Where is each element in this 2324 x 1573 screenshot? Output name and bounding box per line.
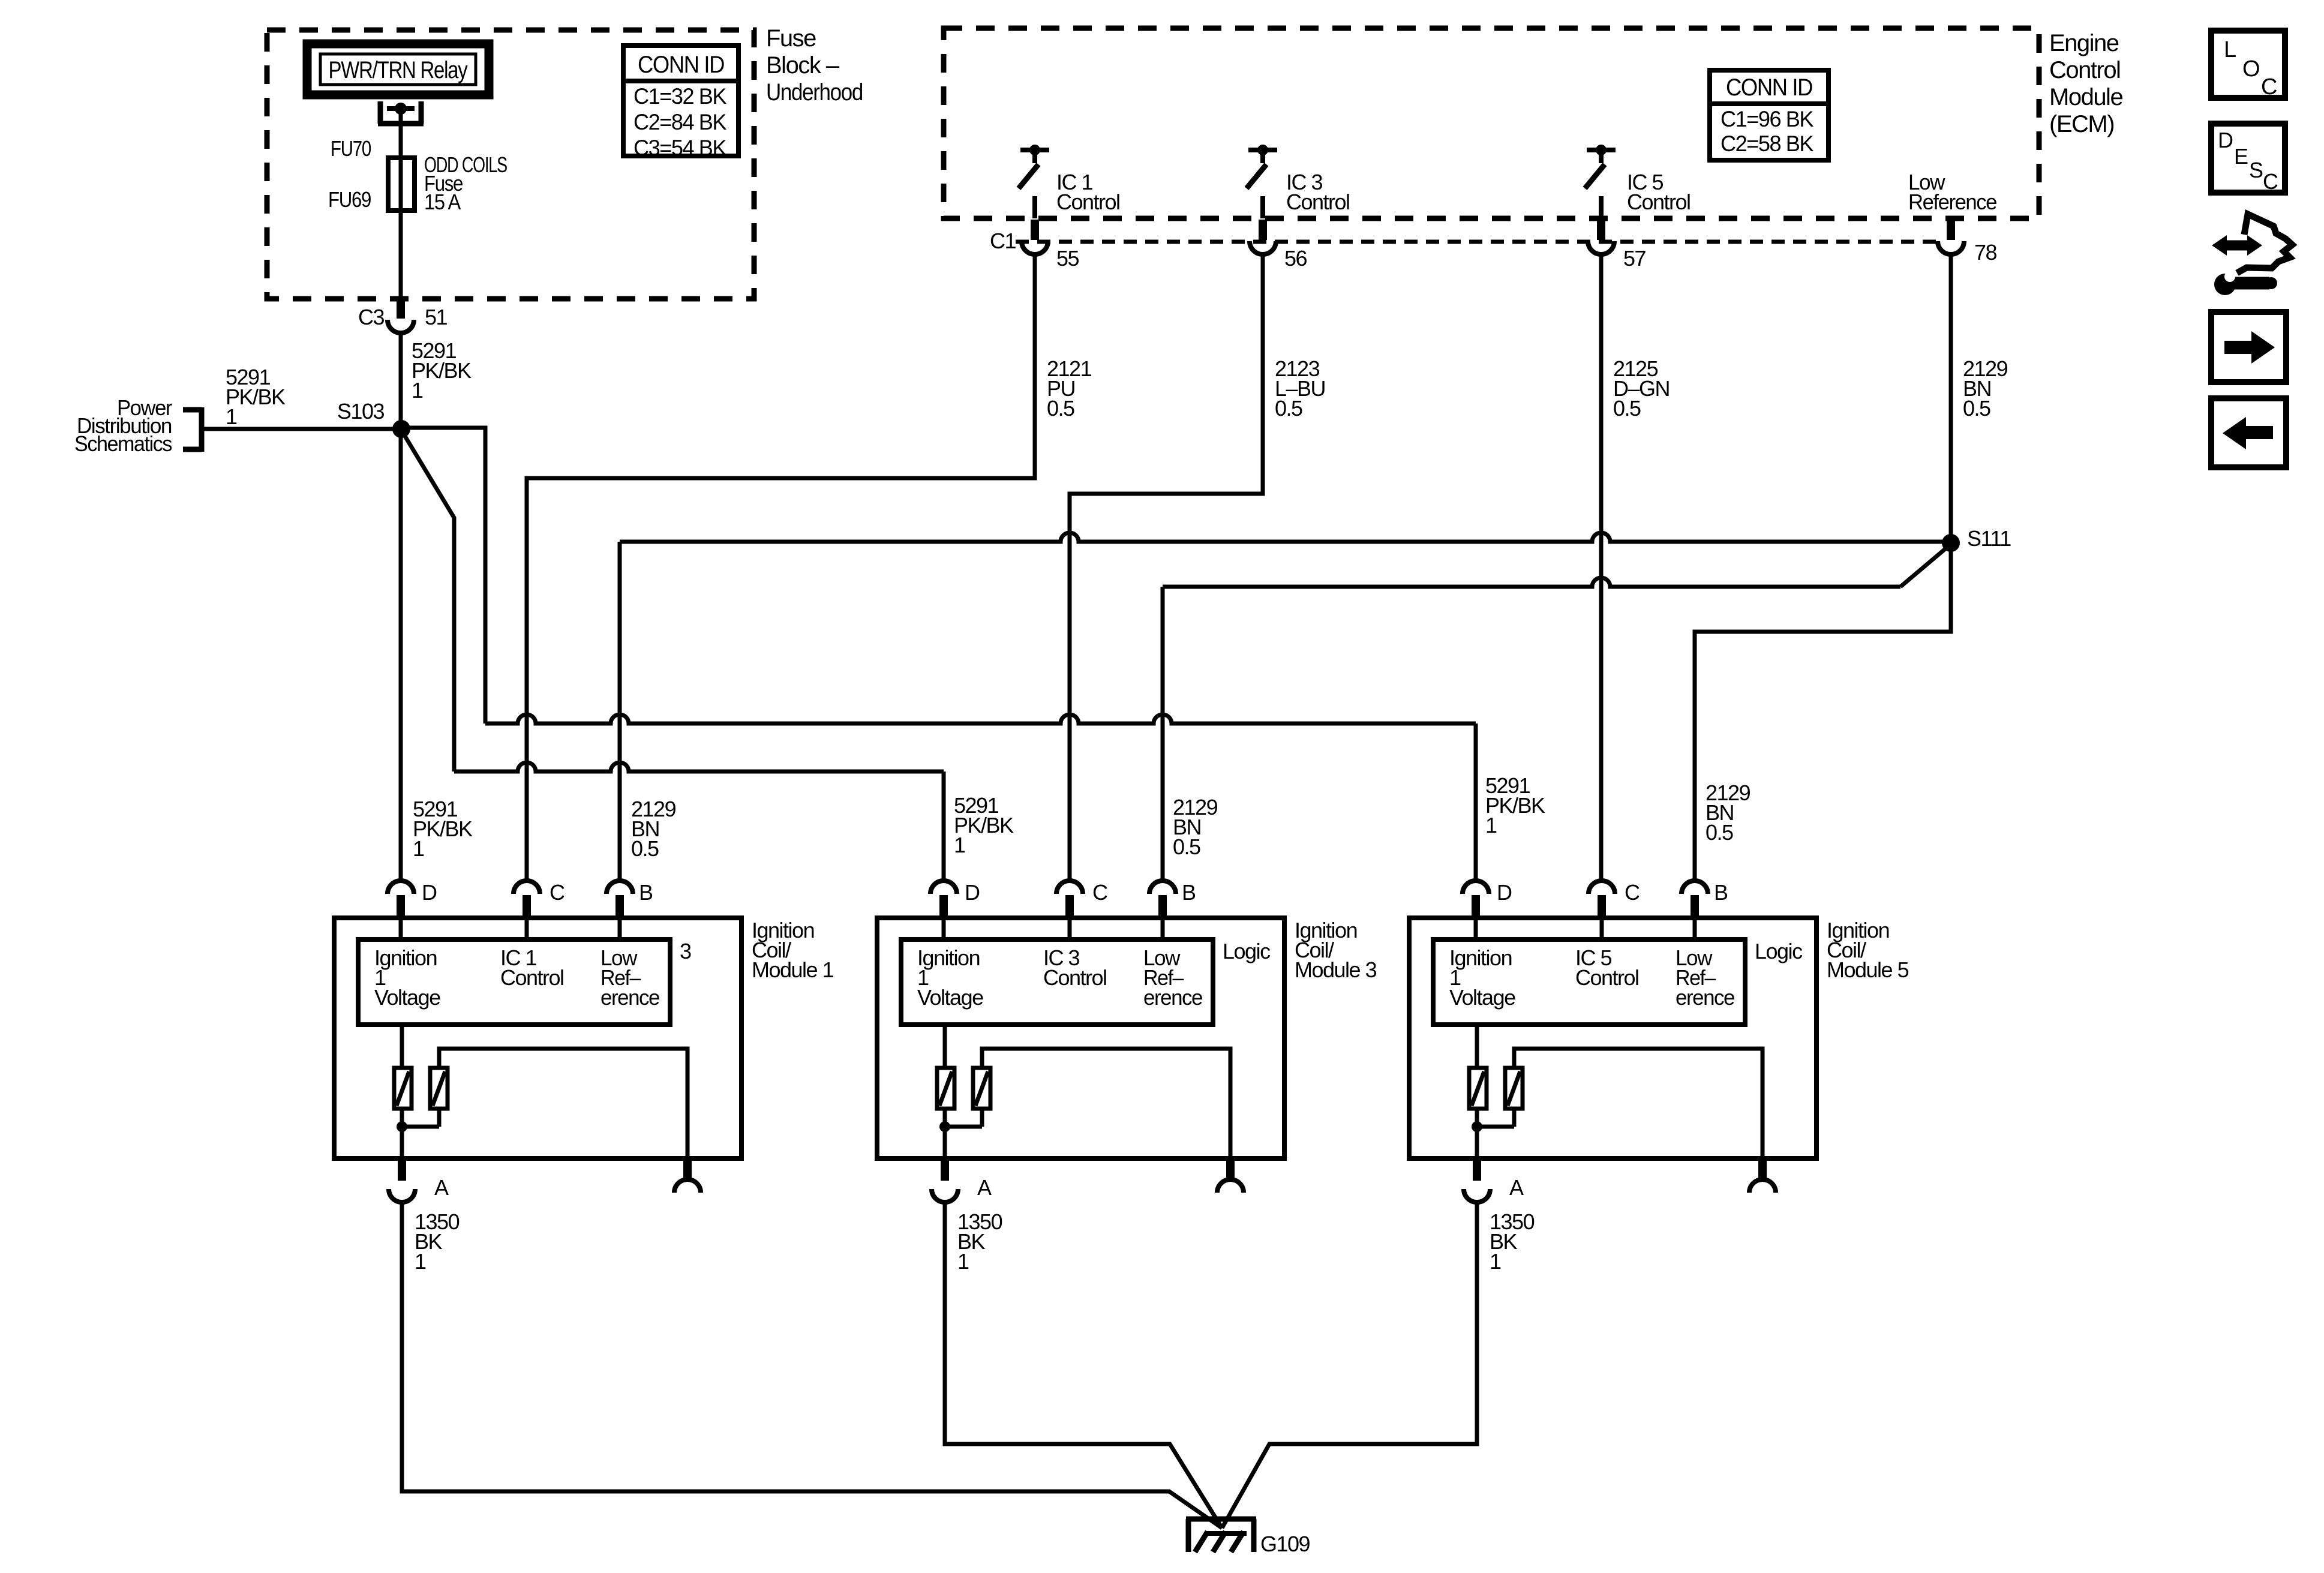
svg-text:Voltage: Voltage [917, 985, 983, 1010]
svg-text:Block –: Block – [766, 52, 840, 79]
icon forward arrow box [2211, 312, 2286, 382]
wire 2129: S111 to module1 pin B [620, 533, 1951, 542]
svg-text:Schematics: Schematics [74, 431, 172, 456]
wire 1350 BK: module5 A to ground [1222, 1202, 1477, 1528]
wire 2129: S111 down branch to module5 pin B [1695, 543, 1951, 881]
svg-text:C: C [2261, 74, 2277, 100]
svg-text:Engine: Engine [2049, 30, 2119, 56]
svg-text:1: 1 [1490, 1249, 1501, 1274]
ignition coil/module 1 pin B connector [606, 881, 633, 894]
svg-text:S103: S103 [337, 399, 385, 424]
svg-text:Voltage: Voltage [374, 985, 440, 1010]
svg-text:G109: G109 [1260, 1532, 1310, 1556]
ECM driver IC 3 Control [1248, 148, 1277, 152]
wire C3 to S103 splice [399, 332, 403, 430]
ECM Low Reference stub [1947, 217, 1955, 220]
module 1 pin wires into inner box [399, 918, 403, 939]
svg-text:0.5: 0.5 [1047, 396, 1074, 421]
svg-text:Control: Control [1043, 965, 1107, 990]
svg-text:1: 1 [954, 833, 965, 857]
ignition coil/module 3 inner terminal box [901, 939, 1213, 1025]
svg-text:C: C [2263, 169, 2278, 194]
svg-text:1: 1 [957, 1249, 969, 1274]
wire 2129: S111 diagonal branch to module3 pin B [1900, 544, 1951, 587]
svg-text:Control: Control [2049, 57, 2120, 83]
relay PWR/TRN Relay box [307, 44, 489, 95]
ignition coil/module 3 outer box [877, 918, 1284, 1158]
svg-text:1: 1 [413, 836, 424, 861]
svg-text:D: D [422, 880, 437, 905]
module 3 coil primary winding [937, 1068, 954, 1109]
svg-text:0.5: 0.5 [1173, 834, 1200, 859]
ignition coil/module 3 pin B connector [1149, 881, 1176, 894]
svg-text:erence: erence [1143, 985, 1202, 1010]
svg-text:C2=84 BK: C2=84 BK [633, 110, 727, 134]
svg-text:0.5: 0.5 [1963, 396, 1990, 421]
ECM pin 57 [1597, 220, 1605, 240]
svg-text:Underhood: Underhood [766, 79, 863, 106]
svg-text:1: 1 [1485, 813, 1497, 837]
svg-text:A: A [1509, 1175, 1524, 1200]
svg-text:O: O [2242, 56, 2259, 82]
wire 2129 BN: ECM 78 down to splice S111 [1949, 254, 1953, 543]
module 5 unused terminal [1758, 1158, 1767, 1179]
wire 5291: S103 down to module1 pin D [399, 429, 403, 881]
svg-text:CONN ID: CONN ID [1726, 74, 1812, 101]
wire power distribution to S103 [202, 427, 401, 431]
ignition coil/module 1 outer box [334, 918, 741, 1158]
svg-text:A: A [977, 1175, 992, 1200]
module 1 coil primary winding [394, 1068, 412, 1109]
module 3 internal wires [943, 1025, 947, 1068]
wire 2125 D-GN: ECM 57 to module5 pin C [1599, 254, 1604, 881]
ignition coil/module 5 pin D connector [1474, 881, 1478, 882]
wire 5291 branch: S103 to module5 pin D [401, 428, 485, 724]
svg-text:Control: Control [1575, 965, 1639, 990]
splice S111 [1942, 534, 1960, 552]
svg-text:CONN ID: CONN ID [638, 52, 724, 78]
ignition coil/module 3 pin D connector [942, 881, 946, 882]
ignition coil/module 5 inner terminal box [1433, 939, 1745, 1025]
svg-text:1: 1 [226, 404, 237, 429]
ECM driver IC 1 Control [1020, 148, 1049, 152]
svg-text:C: C [550, 880, 565, 905]
svg-text:B: B [1182, 880, 1196, 905]
relay pin bracket [378, 101, 383, 124]
module 1 internal wires [400, 1025, 404, 1068]
svg-text:Module 5: Module 5 [1827, 957, 1909, 982]
module 5 pin A connector [1473, 1158, 1481, 1181]
svg-text:C: C [1625, 880, 1640, 905]
svg-text:erence: erence [600, 985, 659, 1010]
module 5 coil secondary winding [1505, 1068, 1523, 1109]
svg-text:78: 78 [1974, 240, 1997, 265]
conn id table ECM [1710, 70, 1828, 160]
svg-text:E: E [2234, 144, 2248, 169]
svg-text:0.5: 0.5 [1275, 396, 1302, 421]
ignition coil/module 5 pin B connector [1682, 881, 1708, 894]
ground G109 [1186, 1517, 1256, 1522]
svg-text:15 A: 15 A [424, 190, 461, 214]
svg-text:FU70: FU70 [331, 136, 371, 161]
svg-text:D: D [965, 880, 980, 905]
svg-text:0.5: 0.5 [1613, 396, 1641, 421]
module 3 pin A connector [941, 1158, 949, 1181]
svg-text:Module: Module [2049, 84, 2122, 110]
svg-text:Module 3: Module 3 [1295, 957, 1377, 982]
ECM driver IC 5 Control [1587, 148, 1616, 152]
wire 1350 BK: module1 A to ground [402, 1202, 1222, 1528]
conn id table fuse block [623, 46, 738, 156]
wire 1350 BK: module3 A to ground [945, 1202, 1222, 1528]
svg-text:51: 51 [425, 305, 448, 329]
wire 2123 L-BU: ECM 56 to module3 pin C [1070, 254, 1263, 881]
svg-text:C2=58 BK: C2=58 BK [1721, 131, 1814, 156]
module 1 unused terminal [683, 1158, 692, 1179]
ignition coil/module 1 inner terminal box [358, 939, 670, 1025]
ignition coil/module 1 pin D connector [399, 881, 403, 882]
ECM pin 55 [1031, 220, 1039, 240]
svg-text:0.5: 0.5 [631, 836, 659, 861]
svg-text:C3: C3 [358, 305, 384, 329]
module 3 coil secondary winding [973, 1068, 990, 1109]
svg-text:1: 1 [415, 1249, 426, 1274]
svg-text:A: A [434, 1175, 449, 1200]
svg-text:Reference: Reference [1908, 190, 1996, 214]
icon DESC box [2211, 124, 2285, 193]
svg-text:Fuse: Fuse [766, 25, 816, 52]
svg-text:D: D [2218, 128, 2233, 152]
ignition coil/module 5 pin C connector [1589, 881, 1615, 894]
module 1 pin A connector [398, 1158, 406, 1181]
svg-text:Control: Control [1627, 190, 1691, 214]
ignition coil/module 5 outer box [1409, 918, 1816, 1158]
module 1 coil secondary winding [430, 1068, 448, 1109]
svg-text:Module 1: Module 1 [752, 957, 834, 982]
svg-text:1: 1 [412, 378, 423, 403]
connector C3 pin 51 [397, 298, 405, 319]
icon back arrow box [2211, 398, 2286, 467]
ignition coil/module 3 pin C connector [1056, 881, 1083, 894]
svg-text:D: D [1497, 880, 1512, 905]
fuse block underhood dashed box [267, 30, 754, 299]
svg-text:3: 3 [680, 939, 691, 963]
svg-text:S: S [2249, 158, 2263, 182]
svg-text:B: B [1714, 880, 1728, 905]
ignition coil/module 1 pin C connector [514, 881, 540, 894]
svg-text:55: 55 [1056, 246, 1079, 271]
svg-text:PWR/TRN Relay: PWR/TRN Relay [329, 57, 468, 83]
svg-text:C: C [1092, 880, 1107, 905]
module 3 unused terminal [1226, 1158, 1235, 1179]
fuse FU70/FU69 ODD COILS 15A [388, 158, 415, 211]
svg-text:Logic: Logic [1755, 939, 1803, 963]
wire relay to C3 connector [399, 109, 403, 298]
module 5 pin wires into inner box [1474, 918, 1478, 939]
svg-text:C1=32 BK: C1=32 BK [633, 84, 727, 109]
svg-text:Logic: Logic [1223, 939, 1271, 963]
svg-text:C1: C1 [990, 229, 1016, 253]
svg-text:Voltage: Voltage [1449, 985, 1515, 1010]
icon hand with wrench [2220, 241, 2254, 251]
svg-text:FU69: FU69 [328, 187, 371, 212]
power distribution bracket [183, 407, 202, 413]
svg-text:B: B [639, 880, 653, 905]
svg-text:C3=54 BK: C3=54 BK [633, 136, 727, 160]
icon LOC box [2211, 31, 2285, 98]
wire 2121 PU: ECM 55 to module1 pin C [527, 254, 1035, 881]
engine control module dashed box [944, 28, 2039, 218]
svg-text:erence: erence [1676, 985, 1734, 1010]
module 5 internal wires [1475, 1025, 1479, 1068]
svg-text:L: L [2224, 37, 2236, 62]
wire 5291 branch: S103 diagonal to module3 pin D [401, 430, 454, 772]
ECM pin 78 [1947, 220, 1955, 240]
relay pin junction dot [395, 103, 407, 115]
ECM pin 56 [1259, 220, 1267, 240]
svg-text:C1=96 BK: C1=96 BK [1721, 107, 1814, 131]
svg-text:56: 56 [1284, 246, 1307, 271]
svg-text:0.5: 0.5 [1706, 820, 1733, 845]
module 3 pin wires into inner box [942, 918, 946, 939]
svg-text:57: 57 [1623, 246, 1646, 271]
svg-text:Control: Control [1056, 190, 1120, 214]
svg-text:S111: S111 [1967, 526, 2011, 551]
module 5 coil primary winding [1469, 1068, 1487, 1109]
svg-text:Control: Control [1286, 190, 1350, 214]
splice S103 [392, 420, 410, 438]
svg-text:Control: Control [500, 965, 564, 990]
ECM connector C1 dotted line [1016, 240, 1938, 244]
svg-text:(ECM): (ECM) [2049, 111, 2114, 137]
